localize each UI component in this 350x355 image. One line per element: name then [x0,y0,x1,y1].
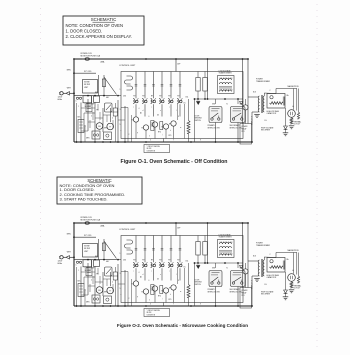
svg-text:TRANSFORMER: TRANSFORMER [256,80,271,83]
secondary interlock switch SW3 (fig O-1) [231,107,246,123]
svg-text:RY1 13D: RY1 13D [84,235,92,237]
wire DPC return (fig O-2) [194,262,196,306]
relay contacts RY1 (fig O-2) [125,240,133,254]
page right perforation dotted line [316,4,318,348]
wire lower feed (fig O-1) [74,95,117,97]
label door sensing switch (fig O-1) [195,115,203,121]
low voltage transformer T1 (fig O-1) [218,76,235,94]
magnetron thermal cutout TCO3 (fig O-1) [294,89,302,126]
svg-text:RY: RY [133,260,135,262]
wire branch lines left cluster (fig O-2) [81,263,125,306]
svg-text:RY4: RY4 [158,296,161,298]
svg-text:D51: D51 [186,261,189,263]
noise filter NF1 (fig O-1) [83,80,98,94]
svg-text:3. START PAD TOUCHED.: 3. START PAD TOUCHED. [60,196,108,201]
svg-text:RY: RY [177,96,179,98]
svg-text:CN2: CN2 [123,259,126,261]
wire branch lines left cluster (fig O-1) [81,99,125,142]
varistor VA1 (fig O-2) [187,263,190,306]
labels rail specks (fig O-2) [197,265,243,269]
svg-text:CONTROL UNIT: CONTROL UNIT [119,229,136,231]
lamp socket LS1 (fig O-2) [104,296,112,304]
svg-text:RY: RY [151,96,153,98]
page left perforation dotted line [40,8,42,344]
svg-text:TT: TT [109,291,111,293]
label secondary interlock (fig O-2) [230,288,243,293]
junction dots bottom bus right (fig O-1) [145,141,192,143]
wire DPC return (fig O-1) [194,98,196,142]
svg-text:5: 5 [120,288,121,290]
wire switch feeds (fig O-1) [216,99,239,104]
svg-text:CONTROL UNIT: CONTROL UNIT [119,65,136,67]
svg-text:SENSING: SENSING [195,282,203,284]
svg-text:CN2: CN2 [123,95,126,97]
svg-text:SWITCH: SWITCH [195,284,202,286]
component flame sensor (fig O-2) [86,268,92,276]
wire secondary (fig O-1) [264,93,276,96]
junction dots bottom bus right (fig O-2) [145,305,192,307]
label magnetron (fig O-1) [288,85,300,88]
labels scan specks control (fig O-1) [133,107,182,138]
primary interlock switch SW2 (fig O-2) [209,271,222,287]
magnetron thermal cutout TCO3 (fig O-2) [294,253,302,290]
power relay RY1 box (fig O-1) [240,124,252,145]
connector pins CN1 (fig O-1) [76,97,81,99]
svg-text:MONITOR FUSE 15A: MONITOR FUSE 15A [81,219,101,222]
wire interlock to neutral (fig O-2) [215,287,239,307]
wire filler branches (fig O-1) [178,104,185,139]
labels wire tags (fig O-2) [76,253,121,290]
label control unit (fig O-2) [119,229,136,231]
svg-text:1. DOOR CLOSED.: 1. DOOR CLOSED. [66,28,103,33]
resistor R1 (fig O-2) [151,285,163,295]
svg-text:RY4: RY4 [158,132,161,134]
wire secondary (fig O-2) [264,257,276,260]
connector 13P (fig O-2) [175,222,181,235]
note box circuit condition (fig O-1) [144,139,170,153]
power relay RY1 box (fig O-2) [240,288,252,309]
relay coils RY2-RY6 (fig O-1) [131,117,176,139]
svg-text:MAGNETRON: MAGNETRON [288,249,300,252]
wire relay branch verticals (fig O-2) [136,236,180,263]
svg-text:GRN: GRN [86,138,89,140]
wire interlock to neutral (fig O-1) [215,123,239,143]
svg-text:GRY: GRY [106,97,109,99]
label oven lamp (fig O-1) [85,103,96,108]
label door sensing switch (fig O-2) [195,279,203,285]
oven lamp L1 (fig O-2) [92,295,100,303]
svg-text:SWITCH: SWITCH [195,120,202,122]
fan motor FM (fig O-1) [96,123,103,130]
note box circuit condition (fig O-2) [144,303,170,317]
fuse F1 monitor fuse (fig O-2) [82,222,89,225]
labels above contacts (fig O-1) [133,96,179,98]
lamp socket LS1 (fig O-1) [104,132,112,140]
svg-text:WHT: WHT [104,128,107,130]
wire HV feed from bus (fig O-1) [247,58,249,97]
oven thermal cutout TCO4 (fig O-2) [243,263,248,288]
svg-text:Figure O-1. Oven Schematic - O: Figure O-1. Oven Schematic - Off Conditi… [121,159,228,165]
wire left supply line (fig O-2) [73,223,75,306]
power plug P1 (fig O-1) [59,92,74,95]
svg-text:MONITOR FUSE 15A: MONITOR FUSE 15A [81,55,101,58]
svg-text:60Hz: 60Hz [58,99,63,101]
label HV capacitor (fig O-2) [267,274,280,279]
turntable motor TTM (fig O-1) [107,123,114,130]
wire lamp feed (fig O-1) [84,96,95,120]
resistors R2 R3 (fig O-1) [196,72,207,100]
wire HV feed from bus (fig O-2) [247,222,249,261]
svg-text:RY: RY [159,260,161,262]
HV rectifier D3 (fig O-2) [284,290,288,297]
thermal cutout TCO2 (fig O-1) [289,118,295,129]
svg-text:3: 3 [120,273,121,275]
wire to rectifier (fig O-2) [285,272,287,290]
wire left supply line (fig O-1) [73,59,75,142]
oven thermal cutout TCO4 (fig O-1) [243,99,248,124]
wires left cluster crosslinks (fig O-1) [81,108,125,131]
diodes D1 D2 (fig O-1) [197,102,243,105]
svg-text:YEL: YEL [96,274,99,276]
wire HV primary pair (fig O-2) [242,222,248,287]
labels wire tags (fig O-1) [76,89,121,126]
label primary interlock (fig O-1) [208,124,221,129]
relay coils RY2-RY6 (fig O-2) [131,281,176,303]
wire relay branch verticals lower (fig O-1) [136,104,180,116]
resistor R1 (fig O-1) [151,121,163,131]
labels bus specks (fig O-2) [150,303,201,305]
primary interlock switch SW2 (fig O-1) [209,107,222,123]
svg-text:BLK: BLK [78,117,81,119]
svg-text:POWER: POWER [242,290,249,292]
svg-text:SW2: SW2 [240,268,243,270]
component lamp resistor (fig O-2) [113,267,117,306]
label secondary interlock (fig O-1) [230,124,243,129]
svg-text:CUTOUT: CUTOUT [294,124,301,126]
wire relay branch verticals lower (fig O-2) [136,268,180,280]
label oven lamp (fig O-2) [85,267,96,272]
wire transformer primary leads (fig O-2) [248,261,259,307]
svg-text:CN3: CN3 [197,101,200,103]
connector pin ticks (fig O-1) [135,85,182,87]
labels above contacts (fig O-2) [133,260,179,262]
wire noise-filter feed (fig O-2) [74,235,96,237]
wire low-voltage rail (fig O-2) [194,262,243,264]
fuse F2 line fuse (fig O-1) [99,75,106,96]
svg-text:IN OFF: IN OFF [147,148,152,150]
ground transformer (fig O-2) [254,279,260,282]
svg-text:CUTOUT: CUTOUT [294,288,301,290]
component flame sensor (fig O-1) [86,104,92,112]
wire switch feeds (fig O-2) [216,263,239,268]
label power transformer (fig O-1) [256,78,271,83]
magnetron MG1 (fig O-1) [288,110,296,118]
HV capacitor assembly box (fig O-1) [267,94,285,109]
labels scan specks control (fig O-2) [133,271,182,302]
svg-text:SW1: SW1 [212,268,215,270]
label LVT (fig O-2) [219,233,233,238]
svg-text:RY: RY [151,260,153,262]
fuse F2 line fuse (fig O-2) [99,239,106,260]
wire to rectifier (fig O-1) [285,108,287,126]
labels HV specks (fig O-1) [253,90,294,122]
svg-text:RY: RY [142,96,144,98]
wire bottom neutral bus (fig O-2) [74,305,252,307]
svg-text:RY: RY [177,260,179,262]
labels scan specks left (fig O-2) [78,270,122,297]
svg-text:RY1 13D: RY1 13D [84,71,92,73]
wires left cluster fill (fig O-2) [76,267,113,307]
labels pin numbers (fig O-2) [140,266,186,280]
svg-text:TRANSFORMER: TRANSFORMER [219,236,233,239]
power plug P1 (fig O-2) [59,256,74,259]
labels control interior specks (fig O-2) [123,259,188,301]
svg-text:T1: T1 [226,268,228,270]
connector pin ticks (fig O-2) [135,249,182,251]
svg-text:5: 5 [120,124,121,126]
wire low-voltage rail (fig O-1) [194,98,243,100]
svg-text:INTERLOCK SW: INTERLOCK SW [208,127,221,129]
label interlock monitor fuse (fig O-1) [81,53,101,57]
low voltage transformer T1 (fig O-2) [218,240,235,258]
svg-text:D3: D3 [157,279,159,281]
label HV capacitor (fig O-1) [267,110,280,115]
label interlock monitor fuse (fig O-2) [81,217,101,221]
svg-text:RECTIFIER: RECTIFIER [261,130,271,132]
svg-text:INTERLOCK SW: INTERLOCK SW [208,291,221,293]
wire noise-filter feed (fig O-1) [74,71,96,73]
magnetron MG1 (fig O-2) [288,274,296,282]
svg-text:CONDITION: CONDITION [147,314,155,316]
noise filter NF1 (fig O-2) [83,244,98,258]
resistors R2 R3 (fig O-2) [196,236,207,264]
label 120V 60Hz (fig O-1) [58,97,63,102]
svg-text:CAPACITOR: CAPACITOR [267,276,277,279]
labels scan specks left (fig O-1) [78,106,122,133]
wire branch at 13P area (fig O-2) [207,222,209,264]
control unit U1 outline (fig O-2) [121,236,243,303]
wires control left edge (fig O-1) [118,96,132,142]
label wire colors (fig O-2) [67,233,72,253]
relay contacts RY2-RY7 (fig O-1) [133,98,182,103]
junction dots left line (fig O-1) [73,58,75,94]
svg-text:TRANSFORMER: TRANSFORMER [219,72,233,75]
wire transformer primary leads (fig O-1) [248,97,259,143]
heater element H1 (fig O-1) [78,120,84,133]
svg-text:1: 1 [120,253,121,255]
svg-text:RY: RY [133,96,135,98]
relay contacts RY1 (fig O-1) [125,76,133,90]
HV transformer T2 (fig O-1) [258,95,264,113]
wire magnetron filament leads (fig O-2) [276,253,297,275]
wire fuse to feed (fig O-1) [103,88,105,97]
wire filler branches (fig O-2) [178,268,185,303]
labels bus specks (fig O-1) [150,139,201,141]
svg-text:RY1: RY1 [242,131,245,133]
svg-text:SW2: SW2 [240,104,243,106]
label HV trans vertical (fig O-1) [250,116,253,125]
svg-text:CONDITION: CONDITION [147,150,155,152]
label HV rectifier (fig O-2) [261,290,274,295]
thermal cutout TCO2 (fig O-2) [289,282,295,293]
HV capacitor assembly box (fig O-2) [267,258,285,273]
secondary interlock switch SW3 (fig O-2) [231,271,246,287]
wire bottom neutral bus (fig O-1) [74,141,252,143]
fuse F1 monitor fuse (fig O-1) [82,58,89,61]
label ASA (fig O-1) [101,61,106,64]
svg-text:RY: RY [168,96,170,98]
svg-text:CAPACITOR: CAPACITOR [267,112,277,115]
note box 1 border [63,16,144,45]
svg-text:T1: T1 [226,104,228,106]
label HV rectifier (fig O-1) [261,126,274,131]
svg-text:RY: RY [142,260,144,262]
svg-text:SW1: SW1 [212,104,215,106]
label ASA (fig O-2) [101,225,106,228]
diodes D1 D2 (fig O-2) [197,266,243,269]
label HV trans vertical (fig O-2) [250,280,253,289]
junction dots feeds (fig O-1) [87,58,147,96]
svg-text:Figure O-2. Oven Schematic - M: Figure O-2. Oven Schematic - Microwave C… [117,323,248,328]
note box 2 border [57,177,142,204]
label wire colors (fig O-1) [67,69,72,89]
heater element H1 (fig O-2) [78,284,84,297]
oven lamp L1 (fig O-1) [92,131,100,139]
component lamp resistor (fig O-1) [113,103,117,142]
svg-text:GRN: GRN [86,302,89,304]
junction dots left line (fig O-2) [73,222,75,258]
wire diagonal link (fig O-2) [104,241,117,259]
wire branch at 13P area (fig O-1) [207,58,209,100]
wire HV primary pair (fig O-1) [242,58,248,123]
svg-text:RY5: RY5 [169,299,172,301]
wire top supply bus L1 (fig O-2) [74,222,248,224]
svg-text:TT: TT [109,127,111,129]
wires control left edge (fig O-2) [118,260,132,306]
turntable motor TTM (fig O-2) [107,287,114,294]
HV transformer T2 (fig O-2) [258,259,264,277]
ground rectifier (fig O-2) [283,297,289,300]
connector pins CN1 (fig O-2) [76,261,81,263]
ground transformer (fig O-1) [254,115,260,118]
labels rail specks (fig O-1) [197,101,243,105]
wire lamp feed (fig O-2) [84,260,95,284]
svg-text:* CIRCUIT SHOWN: * CIRCUIT SHOWN [147,146,160,148]
label 120V 60Hz (fig O-2) [58,261,63,266]
svg-text:MAGNETRON: MAGNETRON [288,85,300,88]
relay contacts RY2-RY7 (fig O-2) [133,262,182,267]
svg-text:3: 3 [120,109,121,111]
wire magnetron filament leads (fig O-1) [276,89,297,111]
connector 13P (fig O-1) [175,58,181,71]
svg-text:SCHEMATIC: SCHEMATIC [91,17,117,22]
svg-text:BLK: BLK [78,281,81,283]
wire diagonal link (fig O-1) [104,77,117,95]
label control unit (fig O-1) [119,65,136,67]
svg-text:BLK: BLK [253,256,256,258]
svg-text:2. CLOCK APPEARS ON DISPLAY.: 2. CLOCK APPEARS ON DISPLAY. [66,34,132,39]
label LVT (fig O-1) [219,69,233,74]
svg-text:1: 1 [120,89,121,91]
labels pin numbers (fig O-1) [140,102,186,116]
svg-text:RY: RY [168,260,170,262]
control unit U1 outline (fig O-1) [121,72,243,139]
labels control interior specks (fig O-1) [123,95,188,137]
svg-text:RECTIFIER: RECTIFIER [261,294,271,296]
svg-text:D5: D5 [184,266,186,268]
junction dots feeds (fig O-2) [87,222,147,260]
svg-text:YEL: YEL [96,110,99,112]
svg-text:RY: RY [159,96,161,98]
label magnetron (fig O-2) [288,249,300,252]
HV capacitor C1 and bleeder R4 (fig O-1) [270,96,285,106]
svg-text:D3: D3 [157,115,159,117]
svg-text:D5: D5 [184,102,186,104]
junction dots bottom bus left (fig O-2) [80,305,126,307]
svg-text:IN OFF: IN OFF [147,312,152,314]
svg-text:POWER: POWER [242,126,249,128]
svg-text:WHT: WHT [104,292,107,294]
thermal cutout TCO1 (fig O-1) [83,96,100,103]
svg-text:* CIRCUIT SHOWN: * CIRCUIT SHOWN [147,310,160,312]
wire lower feed (fig O-2) [74,259,117,261]
ground rectifier (fig O-1) [283,133,289,136]
label primary interlock (fig O-2) [208,288,221,293]
HV rectifier D3 (fig O-1) [284,126,288,133]
svg-text:D51: D51 [186,97,189,99]
thermal cutout TCO1 (fig O-2) [83,260,100,267]
varistor VA1 (fig O-1) [187,99,190,142]
svg-text:TRANSFORMER: TRANSFORMER [256,244,271,247]
svg-text:RY5: RY5 [169,135,172,137]
junction dots bottom bus left (fig O-1) [80,141,126,143]
svg-text:GRY: GRY [106,261,109,263]
label power transformer (fig O-2) [256,242,271,247]
labels HV specks (fig O-2) [253,254,294,286]
svg-text:60Hz: 60Hz [58,263,63,265]
fan motor FM (fig O-2) [96,287,103,294]
door sw SW1 (fig O-2) [105,267,113,276]
wire fuse to feed (fig O-2) [103,252,105,261]
door sw SW1 (fig O-1) [105,103,113,112]
wires left cluster fill (fig O-1) [76,103,113,143]
svg-text:SENSING: SENSING [195,118,203,120]
wires left cluster crosslinks (fig O-2) [81,272,125,295]
wire relay branch verticals (fig O-1) [136,72,180,99]
svg-text:RY1: RY1 [242,295,245,297]
svg-text:CN3: CN3 [197,265,200,267]
HV capacitor C1 and bleeder R4 (fig O-2) [270,260,285,270]
svg-text:BLK: BLK [253,92,256,94]
wire top supply bus L1 (fig O-1) [74,58,248,60]
